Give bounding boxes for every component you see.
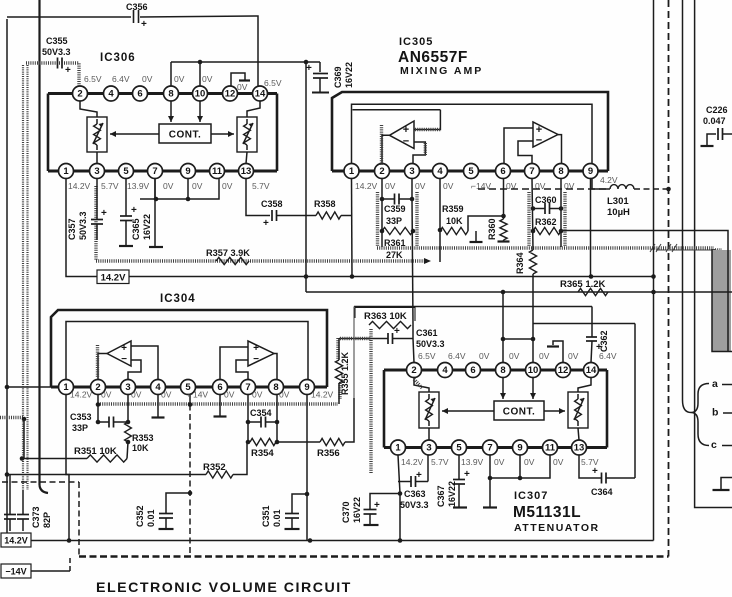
wire horizontal y62 IC306 supply [171,61,320,63]
wire opampB minus loop to pin7 [518,141,533,164]
node junction y62 x306 [304,60,309,65]
pin 14 [584,363,599,378]
svg-text:C362: C362 [599,330,609,352]
svg-text:−: − [536,135,542,147]
pin 2 [91,380,106,395]
svg-text:3: 3 [409,166,414,177]
pin 6 [213,380,228,395]
pin 7 [148,164,163,179]
dashed left box segment [2,481,79,483]
capacitor C359 [394,194,396,205]
svg-text:ATTENUATOR: ATTENUATOR [514,522,600,534]
svg-text:c: c [711,439,717,451]
arrow CONT to right pot [544,410,565,412]
svg-text:13: 13 [241,166,252,177]
CONT box IC306 [159,124,211,143]
svg-text:5.7V: 5.7V [101,181,119,191]
wire top line to C356 and pin14 [7,16,131,18]
node junction y62 pin10 [198,60,203,65]
svg-text:8: 8 [558,166,563,177]
wire x306 vertical down to y292 [305,62,307,292]
wire y306 feedback [354,306,592,308]
wire pin4 to ground [157,395,159,418]
svg-text:C373: C373 [31,506,41,528]
svg-text:R357 3.9K: R357 3.9K [206,248,250,258]
svg-text:R351 10K: R351 10K [74,446,117,457]
svg-text:a: a [712,378,718,390]
svg-text:11: 11 [545,443,556,454]
svg-text:8: 8 [168,89,173,100]
arrow pin10 to CONT [199,101,201,122]
potentiometer IC307 left [419,392,439,428]
pin 13 [572,440,587,455]
pin 9 [583,164,598,179]
svg-text:R361: R361 [384,238,406,248]
svg-text:12: 12 [225,89,236,100]
wire pin14 column with C362 [591,307,593,337]
svg-text:C359: C359 [384,204,406,214]
resistor R355 vertical [338,339,340,361]
svg-text:33P: 33P [386,216,402,226]
pin 11 [210,164,225,179]
svg-text:CONT.: CONT. [503,407,536,418]
svg-text:3: 3 [426,443,431,454]
capacitor C365 on pin5 column [125,179,127,216]
svg-text:IC306: IC306 [100,52,136,64]
arrowhead R357 path [424,258,431,264]
wire pin2 to pot [414,378,429,393]
wire pin1 to 14.2V rail [66,179,97,277]
stipple trace R363 column [369,329,372,474]
pin 8 [164,86,179,101]
svg-text:4.2V: 4.2V [600,175,618,185]
CONT box IC307 [494,401,544,420]
wire pin1 column [398,455,400,541]
wire bias line B [353,109,441,111]
svg-text:5: 5 [468,166,474,177]
svg-text:50V3.3: 50V3.3 [400,500,429,510]
svg-text:+: + [403,124,409,136]
svg-text:14.2V: 14.2V [355,181,378,191]
resistor R352 [190,474,206,476]
svg-text:1: 1 [63,382,69,393]
svg-text:5: 5 [123,166,129,177]
bus vertical solid x653 [653,0,655,541]
box 14.2V label [97,270,129,284]
pin 1 [391,440,406,455]
pin 5 [181,380,196,395]
pin 8 [269,380,284,395]
IC304 pin row [51,386,327,389]
svg-text:C369: C369 [333,66,343,88]
svg-text:+: + [101,208,107,219]
svg-text:C356: C356 [126,2,148,12]
svg-text:+: + [131,205,137,216]
pin 3 [405,164,420,179]
svg-text:16V22: 16V22 [142,214,152,240]
pin 3 [90,164,105,179]
pin 14 [253,86,268,101]
pin 4 [438,363,453,378]
box 14.2V bottom [1,533,31,547]
pin 8 [496,363,511,378]
wire R362 to right edge y230 [561,231,728,352]
IC307 box [383,370,386,448]
svg-text:13: 13 [574,443,585,454]
svg-text:+: + [592,466,598,477]
resistor R351 [22,458,87,460]
svg-text:3: 3 [125,382,130,393]
potentiometer IC306 right [237,117,257,152]
svg-text:9: 9 [304,382,309,393]
wire pin7 column to ground [154,179,156,247]
svg-text:R364: R364 [515,252,525,274]
IC304 inner bias wire [66,322,308,381]
wire thick left vertical [38,0,40,485]
wire pin7 column [532,179,533,251]
pin 3 [121,380,136,395]
wire top frame horizontal [6,19,8,533]
svg-text:0V: 0V [539,351,550,361]
svg-text:8: 8 [500,365,505,376]
wire C364 riser [634,324,636,479]
wire opampB output to pin8 [558,135,562,164]
svg-text:10K: 10K [132,443,149,453]
wire pin13 to C358 [246,179,270,216]
pin 7 [483,440,498,455]
pin 12 [556,363,571,378]
svg-text:0V: 0V [163,181,174,191]
wire pin9 column [590,179,592,277]
svg-text:16V22: 16V22 [447,481,457,507]
wire pot to pin3 [428,428,430,440]
brace a b c [691,384,709,446]
potentiometer IC306 left [87,117,107,152]
resistor R354 [247,422,249,442]
capacitor C373 [22,490,24,514]
svg-text:R354: R354 [251,448,274,459]
svg-text:5.7V: 5.7V [431,457,449,467]
IC307 bottom pin row [384,446,607,449]
svg-text:50V3.3: 50V3.3 [416,339,445,349]
svg-text:7: 7 [487,443,492,454]
resistor R353 vertical [127,395,129,423]
svg-text:5: 5 [456,443,462,454]
bus vertical dashed x668 [668,0,670,557]
svg-text:5.7V: 5.7V [252,181,270,191]
capacitor C356 [134,10,139,23]
pin 5 [464,164,479,179]
arrow pin8 to CONT [502,378,504,400]
pin 10 [526,363,541,378]
svg-text:+: + [306,63,312,74]
svg-text:10: 10 [195,89,206,100]
svg-text:7: 7 [152,166,157,177]
wire pot to pin13 [246,152,247,164]
svg-text:1: 1 [349,166,355,177]
resistor R356 [277,441,320,443]
wire pin1 column down [351,179,354,277]
svg-text:0V: 0V [192,181,203,191]
stipple band y247 [377,246,714,249]
IC306 box [47,94,50,172]
svg-text:C370: C370 [341,501,351,523]
wire opampB output to pin8 [274,354,277,381]
wire pin9 column [306,395,308,541]
svg-text:C226: C226 [706,105,728,115]
pin 4 [433,164,448,179]
pin 9 [513,440,528,455]
wire pin4 column [439,179,441,263]
wire pin2 to pot [80,101,97,117]
svg-text:C351: C351 [261,505,271,527]
svg-text:33P: 33P [72,423,88,433]
resistor R364 vertical [529,250,536,274]
wire opampA output to pin2 [382,135,390,163]
pin 2 [375,164,390,179]
wire opampA plus to bias [414,110,440,130]
wire pin6 column [503,179,505,217]
wire -14V to dashed [31,570,70,572]
svg-text:0V: 0V [131,390,142,400]
svg-text:0V: 0V [142,74,153,84]
stipple right column [713,249,716,351]
svg-text:C363: C363 [404,489,426,499]
svg-text:0V: 0V [174,74,185,84]
svg-text:0V: 0V [252,390,263,400]
inductor L301 [610,185,634,189]
ground symbol right box [721,478,732,490]
svg-text:4: 4 [437,166,443,177]
wire opampA output to pin2 [98,354,107,381]
stipple trace pin2 [414,379,422,388]
potentiometer IC307 right [568,392,588,428]
svg-text:1: 1 [395,443,401,454]
wire pin3 column down [427,455,429,482]
wire opampA minus loop to pin3 [413,142,425,164]
svg-text:0V: 0V [222,181,233,191]
wire L301 dashed to bus [634,188,669,190]
svg-text:82P: 82P [42,512,52,528]
svg-text:0V: 0V [385,181,396,191]
bus vertical right x694 into corner box [695,0,732,508]
svg-text:7: 7 [529,166,534,177]
wire pin7/9/11 to ground [490,455,550,478]
wire pin3 IC305 column to R363 [412,325,414,339]
svg-text:9: 9 [588,166,593,177]
svg-text:8: 8 [273,382,278,393]
svg-text:14.2V: 14.2V [70,390,93,400]
svg-text:−: − [403,136,409,148]
pin 5 [452,440,467,455]
svg-text:12: 12 [558,365,569,376]
svg-text:3: 3 [94,166,99,177]
IC305 inner bias wire [352,104,593,164]
svg-text:6.5V: 6.5V [418,351,436,361]
pin12 ground hook [553,341,563,363]
svg-text:+: + [374,500,380,511]
wire pin3 column [411,179,413,200]
svg-text:IC304: IC304 [160,293,196,305]
wire R358 to IC305 pin1 [341,215,352,217]
pin 7 [525,164,540,179]
svg-text:14.2V: 14.2V [4,536,28,546]
pin 8 [554,164,569,179]
svg-text:0V: 0V [415,181,426,191]
capacitor C358 [271,210,273,221]
svg-text:14.2V: 14.2V [101,273,126,284]
capacitor C372 [9,475,11,515]
svg-text:11: 11 [212,166,223,177]
svg-text:+: + [141,19,147,30]
svg-text:0V: 0V [479,351,490,361]
svg-text:+: + [65,65,71,76]
arrow CONT to left pot [110,133,159,135]
wire opampB plus from pin6 [504,128,533,164]
capacitor C355 [57,58,59,69]
ground bar under C367 [453,506,467,508]
svg-text:IC305: IC305 [399,36,433,48]
svg-text:R356: R356 [317,448,340,459]
svg-text:−14V: −14V [5,567,26,577]
svg-text:−: − [253,354,259,365]
dashed box top edge y189 [478,188,610,190]
resistor R357 3.9K zigzag [216,257,249,264]
svg-text:+: + [416,470,422,481]
pin 1 [59,380,74,395]
arrow CONT to right pot [211,133,234,135]
svg-text:14.2V: 14.2V [68,181,91,191]
pin 3 [422,440,437,455]
svg-text:0V: 0V [237,82,248,92]
svg-text:0V: 0V [279,390,290,400]
box -14V bottom [1,564,31,578]
svg-text:6.5V: 6.5V [84,74,102,84]
stipple trace C359 block [376,192,379,247]
svg-text:14.2V: 14.2V [311,390,334,400]
pin 5 [119,164,134,179]
svg-text:C355: C355 [46,36,68,46]
pin 1 [59,164,74,179]
resistor R358 [277,215,316,217]
svg-text:R355 1.2K: R355 1.2K [340,351,350,395]
wire y199 [140,179,219,200]
svg-text:R365 1.2K: R365 1.2K [560,279,606,290]
svg-text:ELECTRONIC VOLUME CIRCUIT: ELECTRONIC VOLUME CIRCUIT [96,580,352,596]
wire opampA minus loop to pin3 [128,360,141,380]
svg-text:1: 1 [63,166,69,177]
capacitor C364 [579,455,601,478]
svg-text:C361: C361 [416,328,438,338]
ground bar under C365 [119,245,133,247]
svg-text:9: 9 [185,166,190,177]
bus vertical solid x682 to brace [683,0,692,413]
stipple trace R355 column [336,338,339,360]
wire pot to pin3 [96,152,98,164]
svg-text:14: 14 [255,89,266,100]
svg-text:R352: R352 [203,462,226,473]
svg-text:CONT.: CONT. [169,130,202,141]
resistor R361 [382,227,413,234]
svg-text:0V: 0V [553,457,564,467]
pin 11 [543,440,558,455]
stipple trace pin3 IC306 down [94,186,97,260]
svg-text:R358: R358 [314,199,336,209]
svg-text:0.01: 0.01 [272,509,282,527]
svg-text:13.9V: 13.9V [461,457,484,467]
pin 6 [466,363,481,378]
dashed wire pin5 column [189,395,191,405]
capacitor C369 electrolytic [319,62,321,72]
svg-text:50V3.3: 50V3.3 [78,211,88,240]
stipple trace opampA input [380,125,383,165]
IC305 box outline [332,92,608,171]
svg-text:C357: C357 [67,218,77,240]
svg-text:2: 2 [379,166,384,177]
arrow pin10 to CONT [532,378,534,400]
op-amp IC304 B (right-pointing) [248,341,274,366]
svg-text:50V3.3: 50V3.3 [42,47,71,57]
wire pin1 junction left [7,386,51,388]
pin 1 [344,164,359,179]
svg-text:0V: 0V [509,351,520,361]
stipple trace opampA [96,345,99,378]
svg-text:6: 6 [137,89,142,100]
capacitor C357 on pin3 column [96,179,98,220]
stipple block right edge [712,250,731,351]
svg-text:L301: L301 [607,196,629,207]
svg-text:C364: C364 [591,487,613,497]
svg-text:0V: 0V [224,390,235,400]
IC306 top pin row [48,92,277,95]
wire y323 branch to pin10 [533,323,635,325]
svg-text:0V: 0V [443,181,454,191]
wire opampA plus from pin4 [131,346,158,380]
wire pin6 to ground [219,395,221,417]
svg-text:C358: C358 [261,199,283,209]
svg-text:R359: R359 [442,204,464,214]
pin 9 [300,380,315,395]
IC307 top pin row [384,369,607,372]
svg-text:0V: 0V [161,390,172,400]
IC304 box outline [51,310,327,387]
svg-text:+: + [121,343,127,354]
rail 14.2V y540 [31,540,654,542]
svg-text:0V: 0V [494,457,505,467]
wire opampB minus loop to pin7 [236,360,248,380]
wire y276 line [129,276,654,278]
pin 7 [241,380,256,395]
svg-text:C353: C353 [70,412,92,422]
svg-text:−: − [121,354,127,365]
svg-text:6.5V: 6.5V [264,78,282,88]
wire pin1 IC304 column to rail [66,395,69,541]
svg-text:6: 6 [217,382,222,393]
svg-text:10: 10 [528,365,539,376]
svg-text:C352: C352 [135,505,145,527]
svg-text:10µH: 10µH [607,207,630,218]
svg-text:M51131L: M51131L [513,504,581,521]
svg-text:0.01: 0.01 [146,509,156,527]
ground L of R359 [468,216,502,231]
wire pin8 column [276,395,278,443]
svg-text:2: 2 [411,365,416,376]
svg-text:C365: C365 [131,218,141,240]
pin 10 [193,86,208,101]
svg-text:6: 6 [500,166,505,177]
wire pin9 L301 branch [592,179,610,190]
svg-text:4: 4 [108,89,114,100]
